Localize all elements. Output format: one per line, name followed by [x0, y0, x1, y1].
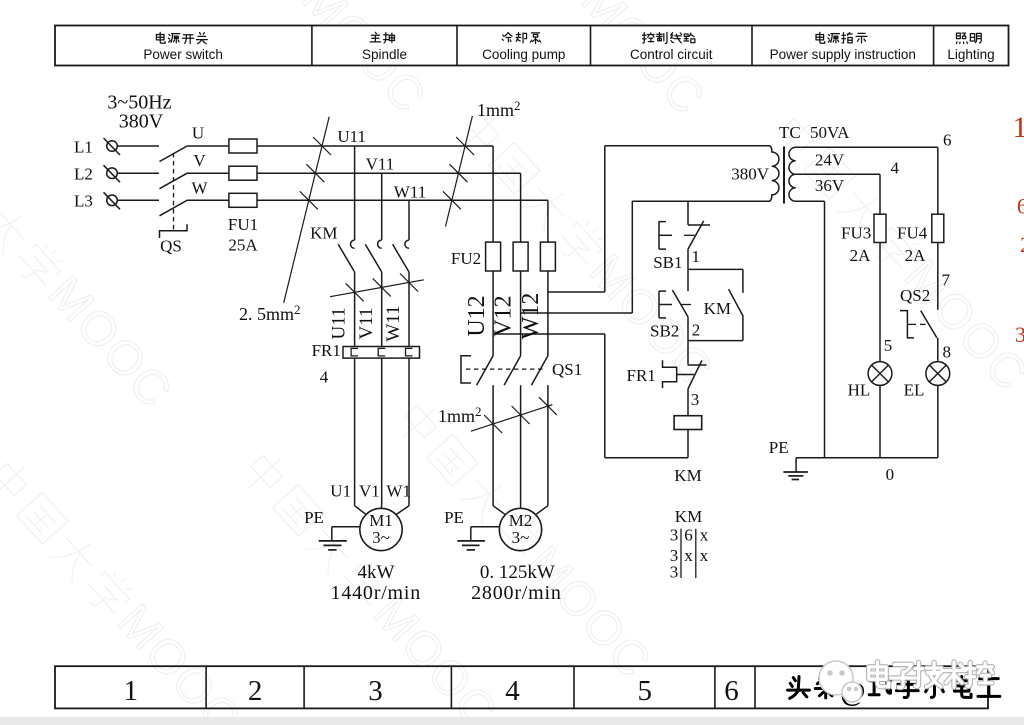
- svg-text:0. 125kW: 0. 125kW: [480, 562, 555, 583]
- svg-text:FR1: FR1: [627, 366, 656, 385]
- svg-text:MOOC: MOOC: [894, 250, 1024, 402]
- svg-text:8: 8: [942, 342, 951, 361]
- svg-text:QS: QS: [160, 237, 182, 256]
- svg-text:3: 3: [691, 390, 700, 409]
- svg-text:Spindle: Spindle: [362, 47, 407, 62]
- svg-text:FU2: FU2: [451, 249, 481, 268]
- svg-text:6: 6: [943, 131, 952, 150]
- svg-text:2A: 2A: [905, 246, 927, 265]
- svg-text:QS2: QS2: [900, 286, 930, 305]
- svg-text:4: 4: [891, 159, 900, 178]
- svg-text:x: x: [700, 526, 709, 545]
- svg-text:Power switch: Power switch: [143, 47, 223, 62]
- svg-text:L2: L2: [74, 165, 93, 184]
- svg-text:4kW: 4kW: [358, 562, 395, 583]
- svg-text:24V: 24V: [815, 151, 845, 170]
- svg-text:2: 2: [248, 675, 263, 707]
- svg-text:1mm2: 1mm2: [477, 98, 521, 120]
- svg-text:V12: V12: [491, 295, 517, 336]
- svg-text:1440r/min: 1440r/min: [331, 582, 422, 604]
- svg-text:W11: W11: [383, 305, 404, 341]
- svg-text:MOOC: MOOC: [363, 587, 508, 725]
- svg-text:0: 0: [886, 465, 895, 484]
- svg-text:6: 6: [1017, 194, 1024, 219]
- svg-text:x: x: [700, 546, 709, 565]
- svg-text:Lighting: Lighting: [947, 47, 994, 62]
- svg-text:V11: V11: [356, 307, 377, 339]
- svg-text:36V: 36V: [815, 176, 845, 195]
- svg-text:2: 2: [1020, 232, 1024, 257]
- svg-text:EL: EL: [904, 380, 925, 399]
- svg-text:1: 1: [1013, 111, 1024, 144]
- svg-text:U11: U11: [329, 307, 350, 339]
- svg-text:SB1: SB1: [653, 253, 682, 272]
- svg-text:FU1: FU1: [228, 215, 258, 234]
- svg-text:2. 5mm2: 2. 5mm2: [239, 302, 301, 324]
- svg-text:TC: TC: [779, 123, 801, 142]
- svg-text:PE: PE: [304, 508, 324, 527]
- svg-text:KM: KM: [704, 299, 731, 318]
- svg-text:U12: U12: [464, 295, 490, 336]
- svg-text:3: 3: [670, 563, 679, 582]
- svg-text:L3: L3: [74, 192, 93, 211]
- svg-text:1: 1: [123, 675, 138, 707]
- svg-text:U: U: [192, 124, 204, 143]
- svg-text:3~: 3~: [512, 528, 530, 547]
- svg-text:25A: 25A: [228, 236, 258, 255]
- svg-text:L1: L1: [74, 138, 93, 157]
- svg-text:1mm2: 1mm2: [438, 404, 482, 426]
- svg-text:3: 3: [368, 675, 383, 707]
- svg-text:V1: V1: [359, 481, 380, 500]
- svg-text:2A: 2A: [850, 246, 872, 265]
- svg-text:KM: KM: [675, 507, 702, 526]
- svg-text:FU4: FU4: [897, 224, 928, 243]
- svg-text:FR1: FR1: [312, 341, 341, 360]
- svg-text:W12: W12: [518, 293, 544, 340]
- svg-text:HL: HL: [848, 381, 871, 400]
- svg-text:V: V: [193, 151, 206, 170]
- svg-text:3: 3: [1015, 322, 1024, 347]
- svg-text:MOOC: MOOC: [38, 267, 183, 419]
- svg-text:3~: 3~: [372, 528, 390, 547]
- svg-text:380V: 380V: [119, 111, 164, 133]
- svg-text:7: 7: [941, 271, 950, 290]
- svg-text:W11: W11: [394, 182, 426, 201]
- svg-text:380V: 380V: [731, 165, 770, 184]
- svg-text:Cooling pump: Cooling pump: [482, 47, 565, 62]
- svg-text:PE: PE: [444, 508, 464, 527]
- svg-text:QS1: QS1: [552, 360, 582, 379]
- svg-text:KM: KM: [674, 466, 701, 485]
- svg-text:x: x: [684, 546, 693, 565]
- svg-text:V11: V11: [366, 155, 395, 174]
- svg-text:4: 4: [505, 675, 520, 707]
- svg-text:5: 5: [884, 336, 893, 355]
- svg-text:U1: U1: [330, 481, 351, 500]
- svg-text:U11: U11: [337, 127, 366, 146]
- svg-text:1: 1: [691, 247, 700, 266]
- svg-text:6: 6: [684, 526, 693, 545]
- svg-text:Control circuit: Control circuit: [630, 47, 713, 62]
- svg-text:PE: PE: [769, 438, 789, 457]
- svg-text:FU3: FU3: [841, 224, 871, 243]
- svg-text:SB2: SB2: [650, 322, 679, 341]
- svg-text:2: 2: [692, 321, 701, 340]
- svg-text:6: 6: [724, 675, 739, 707]
- svg-text:W1: W1: [386, 481, 411, 500]
- svg-text:Power supply instruction: Power supply instruction: [770, 47, 916, 62]
- svg-text:3: 3: [670, 526, 679, 545]
- svg-text:5: 5: [637, 675, 652, 707]
- svg-text:W: W: [191, 179, 208, 198]
- svg-text:4: 4: [320, 368, 329, 387]
- svg-text:KM: KM: [310, 224, 337, 243]
- svg-text:50VA: 50VA: [810, 123, 850, 142]
- svg-text:2800r/min: 2800r/min: [471, 582, 562, 604]
